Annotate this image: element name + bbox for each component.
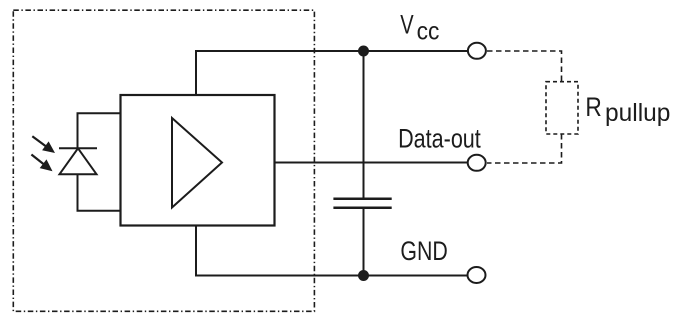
wire: capacitor upper lead: [363, 51, 365, 199]
terminal GND: [468, 267, 486, 283]
junction: Vcc / capacitor: [358, 46, 369, 57]
svg-text:GND: GND: [400, 236, 447, 266]
wire: photodiode anode to bottom stub: [77, 174, 79, 211]
photodiode cathode bar: [59, 147, 97, 149]
svg-text:cc: cc: [417, 17, 440, 45]
terminal Vcc: [468, 43, 486, 59]
amplifier gain triangle: [172, 118, 222, 208]
junction: GND / capacitor: [358, 270, 369, 281]
wire: bottom stub photodiode to amplifier: [77, 210, 122, 212]
light arrow 1 into photodiode: [32, 136, 55, 153]
resistor Rpullup (dashed body): [546, 82, 578, 134]
wire: amplifier bottom to GND rail: [195, 226, 197, 276]
svg-text:pullup: pullup: [605, 99, 670, 127]
light arrow 2 into photodiode: [31, 155, 52, 172]
wire: capacitor lower lead: [363, 208, 365, 276]
wire: top stub photodiode to amplifier: [77, 112, 122, 114]
dashed wire: Vcc terminal to pull-up resistor: [487, 51, 562, 82]
terminal Data-out: [468, 155, 486, 171]
wire: amplifier output to Data-out: [275, 162, 468, 164]
svg-text:Data-out: Data-out: [398, 124, 481, 154]
svg-text:V: V: [400, 9, 413, 39]
label Rpullup: [585, 92, 670, 127]
svg-text:R: R: [585, 92, 601, 122]
label Vcc: [400, 9, 439, 45]
capacitor C1 bottom plate: [333, 207, 391, 210]
photodiode anode triangle: [60, 148, 97, 174]
photodiode D1: [59, 148, 97, 174]
sensor module outline (dash-dot box): [13, 10, 314, 311]
wire: Vcc rail: [195, 50, 467, 52]
wire: amplifier top to Vcc rail: [195, 51, 197, 95]
amplifier U1 box: [121, 95, 275, 226]
dashed wire: pull-up resistor to Data-out terminal: [487, 134, 562, 163]
wire: GND rail: [195, 275, 467, 277]
capacitor C1 top plate: [333, 197, 391, 200]
wire: photodiode branch vertical: [77, 113, 79, 148]
